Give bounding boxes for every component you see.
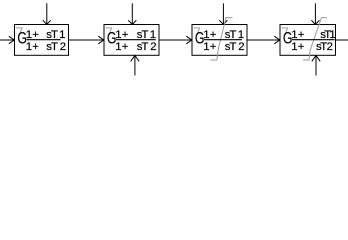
arrowhead into block 4 bbox=[274, 36, 280, 44]
bottom input arrow into block U4 bbox=[312, 56, 320, 76]
lead-lag block U1 box bbox=[15, 25, 69, 56]
fraction bar in block U1 bbox=[27, 39, 61, 41]
wire from block 1 to block 2 bbox=[69, 39, 104, 41]
arrowhead into block 3 bbox=[186, 36, 192, 44]
svg-text:1+sT2: 1+sT2 bbox=[115, 41, 156, 53]
fraction bar in block U3 bbox=[204, 39, 242, 41]
arrowhead into block 2 bbox=[98, 36, 104, 44]
top input arrow into block U4 bbox=[311, 3, 319, 24]
top input arrow into block U3 bbox=[219, 3, 227, 24]
wire from block 2 to block 3 bbox=[159, 39, 192, 41]
grey response-curve glyph in block U2 bbox=[106, 28, 112, 36]
lead-lag block U4 box bbox=[280, 25, 336, 56]
svg-text:1+sT2: 1+sT2 bbox=[26, 41, 66, 53]
fraction bar in block U2 bbox=[116, 39, 156, 41]
wire input line to block 1 bbox=[0, 39, 14, 41]
grey response-curve glyph in block U3 bbox=[194, 28, 200, 36]
lead-lag block U2 box bbox=[104, 25, 159, 56]
bottom input arrow into block U2 bbox=[131, 56, 139, 76]
limiter slash with ticks on block U3 bbox=[210, 18, 232, 60]
limiter slash with ticks on block U4 bbox=[303, 18, 327, 60]
wire output line from block 4 bbox=[336, 39, 348, 41]
grey response-curve glyph in block U4 bbox=[282, 28, 288, 36]
wire from block 3 to block 4 bbox=[247, 39, 280, 41]
lead-lag block U3 box bbox=[192, 25, 247, 56]
top input arrow into block U2 bbox=[128, 3, 136, 24]
svg-text:1+sT2: 1+sT2 bbox=[203, 41, 244, 53]
top input arrow into block U1 bbox=[43, 3, 51, 24]
grey response-curve glyph in block U1 bbox=[16, 28, 22, 36]
fraction bar in block U4 bbox=[292, 39, 335, 41]
arrowhead into block 1 bbox=[9, 36, 15, 44]
